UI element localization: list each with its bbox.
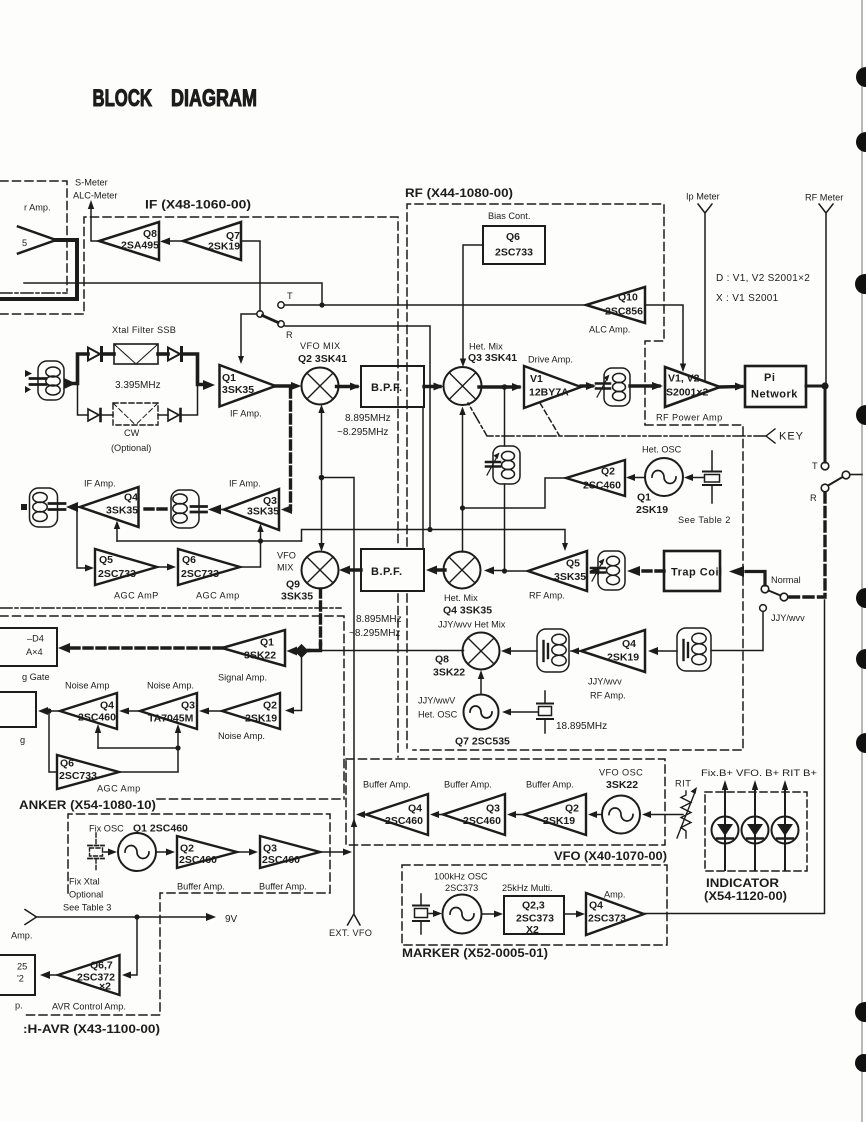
wire bold dashed to ring gate (66, 646, 222, 649)
label Signal Amp. (218, 673, 267, 683)
wire AGC arrow to Q3 (257, 524, 263, 542)
svg-text:Fix Xtal: Fix Xtal (69, 877, 100, 887)
wire dashed gang link drive amp (540, 403, 559, 435)
svg-text:Q6: Q6 (506, 231, 520, 243)
label 25 (17, 962, 27, 972)
board box: Fix OSC / marker unit (22, 814, 330, 1015)
arrow bold into tank (627, 566, 640, 576)
label 8.895MHz (345, 413, 391, 424)
amp Q5 2SC733 AGC (95, 549, 157, 585)
label KEY (779, 431, 804, 443)
svg-text:3.395MHz: 3.395MHz (115, 380, 161, 391)
switch antenna T/R (821, 462, 862, 492)
svg-text:2SA495: 2SA495 (121, 240, 159, 252)
label Q1 2SC460 (133, 823, 188, 835)
svg-text:Buffer Amp.: Buffer Amp. (363, 780, 411, 790)
label Trap Coil (671, 567, 723, 579)
wire multi to amp (564, 911, 585, 918)
svg-text:2SC733: 2SC733 (181, 568, 219, 580)
board box: IF (X48-1060-00) (0, 217, 398, 757)
amp Q2 2SK19 noise (222, 693, 280, 729)
wire Q10 input from PA (645, 305, 686, 372)
label Q2 (180, 843, 194, 855)
svg-text:Amp.: Amp. (11, 931, 32, 941)
label JJY/wvv (588, 677, 622, 687)
board label ANKER (19, 798, 156, 812)
dash-dot line left (mute line) (0, 607, 341, 609)
svg-text:Q5: Q5 (566, 558, 580, 570)
wire osc to multi (482, 911, 503, 918)
wire (102, 414, 113, 416)
wire BPF1 to BPF2 (422, 407, 424, 549)
wire bold dashed Q9 down (319, 589, 322, 644)
label See Table 3 (63, 903, 111, 913)
label S-Meter (75, 178, 108, 188)
antenna symbol Ip meter (698, 204, 712, 381)
label Q4 3SK35 (443, 605, 492, 617)
wire thick BPF1 to het mix (424, 383, 444, 391)
label Amp. (604, 890, 625, 900)
wire thick BPF2 to mixer Q9 (339, 566, 361, 575)
label IF Amp. (230, 409, 262, 419)
switch JJY/Normal (761, 585, 788, 601)
svg-text:Het. Mix: Het. Mix (444, 593, 478, 603)
terminal JJY/wvv antenna (711, 605, 766, 651)
diode D SSB-a (88, 348, 102, 361)
box noise det (cut) (0, 692, 36, 727)
filter B.P.F. 1 (361, 366, 424, 407)
label D:V1,V2 S2001x2 (716, 273, 810, 284)
svg-text:5: 5 (22, 238, 27, 248)
svg-text:Q7 2SC535: Q7 2SC535 (455, 736, 510, 748)
label Q4 (622, 638, 636, 650)
svg-text:8.895MHz: 8.895MHz (356, 614, 402, 625)
transformer IF input (30, 361, 64, 400)
svg-text:r Amp.: r Amp. (24, 203, 51, 213)
wire Q3f to VFO line (320, 849, 352, 856)
label 2SK19 (245, 713, 277, 725)
svg-text:Buffer Amp.: Buffer Amp. (259, 882, 307, 892)
label Q3 (181, 700, 195, 712)
wire Q3n to Q4n (119, 708, 140, 715)
wire osc to Q2v (588, 811, 602, 818)
label Xtal Filter SSB (112, 325, 176, 335)
wire T contact to ALC amp Q10 (285, 304, 586, 306)
svg-text:2SK19: 2SK19 (543, 815, 575, 827)
board label VFO (554, 849, 667, 863)
label Q7 2SC535 (455, 736, 510, 748)
box AVR reg (cut) (0, 955, 35, 995)
svg-text:RF Meter: RF Meter (805, 193, 843, 203)
wire R contact line to RF amp and noise amp (285, 326, 430, 541)
svg-text:Q4 3SK35: Q4 3SK35 (443, 605, 492, 617)
label T (287, 291, 293, 301)
svg-text:3SK35: 3SK35 (106, 505, 138, 517)
wire bias to mixer (460, 245, 483, 367)
label Het. Mix (444, 593, 478, 603)
label 2SC856 (605, 306, 643, 318)
node junction diamond (294, 644, 308, 658)
svg-text:3SK22: 3SK22 (433, 667, 465, 679)
box Trap Coil (664, 551, 720, 591)
board label MARKER (402, 946, 548, 960)
amp V1,V2 S2001x2 power (665, 367, 720, 407)
svg-text:9V: 9V (225, 914, 238, 925)
label Normal (771, 575, 801, 585)
svg-text:ANKER (X54-1080-10): ANKER (X54-1080-10) (19, 798, 156, 812)
label MIX (277, 563, 293, 573)
svg-text:3SK22: 3SK22 (606, 779, 638, 791)
label 2SC373 (445, 883, 478, 893)
label 3SK22 (606, 779, 638, 791)
svg-text:Network: Network (751, 389, 798, 401)
wire R-line branch to RF amp Q5 gate (430, 530, 568, 552)
amp Q4 2SC460 vbuf (366, 794, 428, 835)
label Buffer Amp. v3 (526, 780, 574, 790)
wire noise to AGC amp (49, 711, 57, 772)
label 2SC733 (59, 770, 97, 782)
svg-text:3SK35: 3SK35 (554, 571, 586, 583)
label RF Meter (805, 193, 843, 203)
wire Q4 node to AGC amp Q5 (77, 508, 94, 572)
amp Q4 2SC373 marker (586, 893, 644, 935)
svg-text:V1, V2: V1, V2 (668, 373, 700, 385)
svg-text:2SC460: 2SC460 (78, 712, 116, 724)
svg-text:IF (X48-1060-00): IF (X48-1060-00) (145, 198, 251, 212)
svg-text:2SC733: 2SC733 (495, 247, 533, 259)
amp V1 12BY7A drive (524, 366, 581, 408)
svg-text:Q3: Q3 (181, 700, 195, 712)
wire osc to Q2 (626, 474, 645, 481)
label X:V1 S2001 (716, 293, 779, 304)
label Noise Amp. low (218, 731, 265, 741)
svg-text:Het. OSC: Het. OSC (642, 445, 682, 455)
svg-text:Q2: Q2 (565, 803, 579, 815)
filter CW (optional) dashed (113, 403, 158, 425)
svg-text:Q1: Q1 (637, 492, 651, 504)
svg-text:Q8: Q8 (435, 654, 449, 666)
wire xtal to fix osc (104, 849, 117, 856)
svg-text:Drive Amp.: Drive Amp. (528, 355, 573, 365)
label 2SK19 (607, 652, 639, 664)
label 2SA495 (121, 240, 159, 252)
svg-text:Q6: Q6 (60, 758, 74, 770)
indicator lamp 2 (742, 780, 769, 870)
svg-text:Pi: Pi (764, 372, 775, 384)
wire Q7 to Q8 (478, 670, 484, 694)
label VFO OSC (599, 768, 643, 778)
box D1-D4 ring gate (cut) (0, 628, 57, 666)
svg-text:Q3 3SK41: Q3 3SK41 (468, 352, 517, 364)
label 2SC733 (495, 247, 533, 259)
label Q2 (263, 700, 277, 712)
label (Optional) (111, 443, 151, 453)
svg-text:Q2 3SK41: Q2 3SK41 (298, 353, 347, 365)
svg-text:25: 25 (17, 962, 27, 972)
node junction 9V (134, 914, 139, 919)
wire transformer to Q8 (501, 647, 537, 655)
label Fix.B+ VFO.B+ RIT B+ (701, 768, 817, 778)
transformer JJY ant (677, 628, 711, 671)
wire thick (103, 352, 114, 356)
node junction AGC2 (175, 745, 180, 750)
svg-text:X : V1 S2001: X : V1 S2001 (716, 293, 779, 304)
label 72 (17, 974, 24, 984)
board box AF bottom dash-dot (0, 292, 67, 294)
label V1 (530, 373, 543, 385)
svg-text:See Table 3: See Table 3 (63, 903, 111, 913)
wire S-meter/ALC arrow (88, 200, 98, 241)
label B.P.F. (371, 382, 403, 394)
svg-text:AGC Amp: AGC Amp (97, 784, 141, 794)
svg-text:JJY/wvv: JJY/wvv (771, 613, 805, 623)
wire Q2v to Q3v (507, 811, 524, 818)
svg-text:Q4: Q4 (100, 700, 114, 712)
board label INDICATOR (704, 876, 787, 903)
svg-text:IF Amp.: IF Amp. (84, 479, 116, 489)
crystal fix (dashed optional) (88, 833, 104, 870)
label r Amp. (24, 203, 51, 213)
wire arrow into IF node (64, 378, 76, 389)
wire bold dashed link (145, 507, 168, 510)
svg-text:CW: CW (124, 428, 140, 438)
wire Q3v to Q4v (430, 811, 443, 818)
svg-text:2SK19: 2SK19 (607, 652, 639, 664)
wire arrow to Q3n (175, 724, 181, 748)
label 2SC460 (385, 815, 423, 827)
svg-text:DIAGRAM: DIAGRAM (171, 85, 257, 112)
label Q10 (618, 292, 638, 304)
svg-text:Fix.B+ VFO. B+ RIT B+: Fix.B+ VFO. B+ RIT B+ (701, 768, 817, 778)
svg-text:INDICATOR: INDICATOR (706, 876, 779, 890)
svg-text:Q2,3: Q2,3 (522, 900, 545, 912)
wire crystal to Q7 (502, 709, 538, 716)
svg-text:T: T (287, 291, 293, 301)
svg-text:2SC373: 2SC373 (445, 883, 478, 893)
label Q4 (124, 492, 138, 504)
node junction het osc (460, 505, 465, 510)
binder hole shadows right edge (855, 67, 866, 1072)
svg-text:18.895MHz: 18.895MHz (556, 721, 607, 732)
wire (158, 414, 168, 416)
label 18.895MHz (556, 721, 607, 732)
label Ax4 (26, 647, 43, 657)
label ALC Amp. (589, 325, 630, 335)
svg-text:RF (X44-1080-00): RF (X44-1080-00) (405, 186, 513, 200)
wire KEY dash-dot control line (468, 403, 766, 436)
diode D SSB-b (168, 348, 182, 361)
label RF Amp. (590, 691, 626, 701)
transformer JJY mid (537, 629, 569, 672)
oscillator fix Q1 (118, 833, 156, 871)
label R antenna (810, 493, 817, 503)
board box: AF unit (top-left, cut) (0, 181, 67, 291)
svg-text:12BY7A: 12BY7A (529, 387, 569, 399)
label JJY/wvv Het Mix (438, 620, 506, 630)
label 3.395MHz (115, 380, 161, 391)
svg-text:Amp.: Amp. (604, 890, 625, 900)
svg-text:VFO (X40-1070-00): VFO (X40-1070-00) (554, 849, 667, 863)
svg-text:T: T (812, 461, 818, 471)
svg-text:Bias Cont.: Bias Cont. (488, 211, 530, 221)
node junction T-line (319, 302, 324, 307)
amp (cut, AF unit) (18, 227, 56, 254)
board label IF (145, 198, 251, 212)
label 2SC372 (77, 972, 115, 984)
svg-text:RF Amp.: RF Amp. (590, 691, 626, 701)
wire Q7 output to T/R switch (241, 241, 260, 311)
label Pi (764, 372, 775, 384)
amp Q1 3SK22 signal (222, 630, 285, 666)
wire AGC2 feedback rail (98, 748, 178, 772)
svg-text:R: R (810, 493, 817, 503)
bold dash output stub (21, 504, 27, 510)
svg-text:VFO: VFO (277, 551, 296, 561)
wire bold dashed receive line from R (790, 493, 825, 597)
svg-text:Fix OSC: Fix OSC (89, 824, 124, 834)
label Q1 (260, 637, 274, 649)
svg-text:AGC AmP: AGC AmP (114, 591, 159, 601)
amp Q3 TA7045M noise (140, 693, 197, 729)
label 25kHz Multi. (502, 883, 553, 893)
label See Table 2 (678, 515, 731, 525)
wire ALC long line y=283 (24, 283, 322, 305)
svg-text:p.: p. (15, 1001, 23, 1011)
svg-text:Normal: Normal (771, 575, 801, 585)
svg-text:~8.295MHz: ~8.295MHz (349, 628, 400, 639)
oscillator Q1 2SK19 het (645, 458, 683, 496)
oscillator marker 100kHz (443, 895, 482, 934)
label RF Amp. (529, 591, 565, 601)
svg-text:2SC733: 2SC733 (59, 770, 97, 782)
svg-text:'2: '2 (17, 974, 24, 984)
svg-text:S-Meter: S-Meter (75, 178, 108, 188)
wire het osc to mixers (459, 407, 566, 553)
terminal EXT VFO caret (348, 914, 361, 925)
svg-text:BLOCK: BLOCK (93, 85, 153, 112)
svg-text:Signal Amp.: Signal Amp. (218, 673, 267, 683)
label JJY/wwV (418, 696, 456, 706)
label g (20, 735, 25, 745)
label TA7045M (148, 713, 194, 725)
label ~8.295MHz (337, 427, 388, 438)
wire Q8 output to signal amp (304, 650, 464, 652)
svg-text:3SK35: 3SK35 (247, 506, 279, 518)
svg-text:8.895MHz: 8.895MHz (345, 413, 391, 424)
filter Xtal SSB (114, 344, 158, 364)
svg-text:Q3: Q3 (263, 843, 277, 855)
label 3SK22 (244, 650, 276, 662)
label Q3 (263, 495, 277, 507)
wire arrow Q4 to transformer (66, 502, 80, 512)
wire arrow Q3 to transformer (208, 505, 224, 515)
label V1, V2 (668, 373, 700, 385)
wire thick tank to Q5rf (589, 567, 599, 575)
wire CW branch (78, 384, 89, 415)
wire thick AF output bus (0, 240, 77, 299)
board box: RF (X44-1080-00) (407, 204, 743, 750)
label X2 (526, 924, 539, 936)
antenna symbol RF meter (819, 204, 833, 384)
label Buffer Amp. f1 (177, 882, 225, 892)
wire 9V rail (25, 910, 216, 925)
amp Q2 2SC460 buffer (566, 460, 625, 496)
wire CW join (182, 386, 198, 415)
svg-text:IF Amp.: IF Amp. (229, 479, 261, 489)
svg-text:JJY/wvv: JJY/wvv (588, 677, 622, 687)
svg-text:B.P.F.: B.P.F. (371, 382, 403, 394)
wire Q4j input (570, 647, 677, 655)
wire RIT to osc (642, 811, 683, 818)
label 100kHz OSC (434, 872, 488, 882)
svg-text:RIT: RIT (675, 779, 691, 789)
svg-text:Trap Coil: Trap Coil (671, 567, 723, 579)
label Noise Amp. (147, 681, 194, 691)
svg-text:Noise Amp: Noise Amp (65, 681, 109, 691)
amp Q2 2SC460 fix (177, 836, 237, 868)
wire KEY bracket (766, 429, 775, 443)
svg-text:g: g (20, 735, 25, 745)
wire crystal to osc (429, 910, 442, 917)
label p. (15, 1001, 23, 1011)
svg-text:Buffer Amp.: Buffer Amp. (526, 780, 574, 790)
page edge line (861, 0, 863, 1122)
svg-text:RF Power Amp: RF Power Amp (656, 413, 723, 423)
svg-text:2SC460: 2SC460 (262, 854, 300, 866)
label 3SK35 (106, 505, 138, 517)
wire switch pivot to Q1 IF amp gate (238, 314, 257, 364)
svg-text:Q3: Q3 (486, 803, 500, 815)
svg-text:ALC Amp.: ALC Amp. (589, 325, 630, 335)
label Q1 (222, 372, 236, 384)
board box: INDICATOR (X54-1120-00) (705, 792, 807, 871)
amp Q6 2SC733 AGC2 (57, 755, 119, 789)
svg-text:VFO OSC: VFO OSC (599, 768, 643, 778)
input arrows (25, 370, 32, 393)
label Q6,7 (90, 960, 113, 972)
label ALC-Meter (73, 191, 117, 201)
label Buffer Amp. v1 (363, 780, 411, 790)
wire thick PA to Pi network (720, 383, 745, 391)
wire tank vertical link (504, 389, 506, 571)
diode D CW-b (168, 409, 181, 421)
svg-text:Q1: Q1 (260, 637, 274, 649)
svg-text:Het. Mix: Het. Mix (469, 342, 503, 352)
svg-text:S2001×2: S2001×2 (666, 387, 708, 399)
label Q6 (60, 758, 74, 770)
label EXT. VFO (329, 928, 372, 938)
label 2SC460 (463, 815, 501, 827)
wire thick mixer to BPF1 (337, 383, 361, 391)
svg-text:MARKER (X52-0005-01): MARKER (X52-0005-01) (402, 946, 548, 960)
label 2SC460 (179, 854, 217, 866)
label 3SK35 (281, 591, 313, 603)
label Buffer Amp. v2 (444, 780, 492, 790)
resistor RIT (677, 787, 697, 838)
label 3SK35 (222, 384, 254, 396)
svg-text:Xtal Filter SSB: Xtal Filter SSB (112, 325, 176, 335)
transformer IF out (30, 488, 66, 527)
label IF Amp. (Q4) (84, 479, 116, 489)
svg-text:3SK22: 3SK22 (244, 650, 276, 662)
svg-text:2SC460: 2SC460 (385, 815, 423, 827)
svg-text:2SC733: 2SC733 (98, 568, 136, 580)
board box: MARKER (X52-0005-01) (402, 865, 667, 945)
svg-text:Ip Meter: Ip Meter (686, 192, 720, 202)
svg-text:3SK35: 3SK35 (281, 591, 313, 603)
svg-text:IF Amp.: IF Amp. (230, 409, 262, 419)
svg-text:g Gate: g Gate (22, 672, 50, 682)
